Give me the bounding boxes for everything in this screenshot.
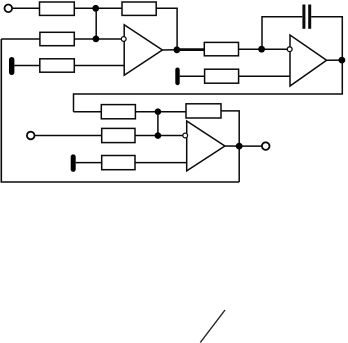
wire: [239, 48, 288, 50]
node J7: [236, 143, 243, 150]
inverting bubble U1: [121, 37, 126, 42]
wire: [239, 145, 262, 147]
wire (bottom feedback rail): [1, 39, 239, 182]
wire: [135, 111, 186, 113]
wire: [180, 75, 205, 77]
op-amp U2: [290, 35, 327, 86]
wire: [239, 75, 290, 77]
resistor R8: [186, 104, 221, 118]
wire: [327, 59, 343, 61]
inverting bubble U3: [183, 133, 188, 138]
wire: [135, 162, 187, 164]
op-amp U1: [124, 25, 162, 75]
wire: [156, 8, 177, 49]
wire: [35, 135, 102, 137]
resistor R4: [40, 59, 75, 72]
resistor R9: [102, 128, 135, 142]
source bar S3: [71, 154, 76, 172]
resistor R2: [122, 2, 156, 15]
source bar S1: [9, 57, 14, 75]
wire: [14, 65, 39, 67]
wire: [74, 65, 124, 67]
node J3: [174, 46, 181, 53]
op-amp U3: [187, 121, 225, 171]
resistor R7: [101, 105, 135, 119]
resistor R6: [205, 69, 239, 83]
capacitor C1 plate right: [308, 5, 311, 29]
wire (thick): [177, 48, 204, 51]
node J4: [258, 46, 265, 53]
wire (feedback bus to stage 2): [74, 60, 343, 112]
wire: [135, 135, 183, 137]
wire: [74, 7, 122, 9]
wire: [262, 17, 302, 49]
wire: [162, 49, 177, 51]
node J8: [155, 132, 162, 139]
node J6: [155, 108, 162, 115]
wire: [225, 145, 239, 147]
inverting bubble U2: [287, 47, 292, 52]
resistor R5: [204, 42, 238, 55]
node J1: [92, 5, 99, 12]
resistor R1: [40, 2, 75, 15]
resistor R10: [102, 156, 135, 170]
wire: [12, 7, 39, 9]
node J2: [93, 36, 100, 43]
resistor R3: [40, 32, 74, 45]
annotation stroke (bottom): [200, 310, 225, 343]
wire: [95, 8, 97, 39]
wire: [74, 111, 102, 113]
input terminal (top-left): [5, 5, 13, 13]
wire: [74, 38, 121, 40]
output terminal: [262, 142, 270, 150]
node J5: [339, 57, 346, 64]
wire: [221, 111, 239, 182]
wire: [76, 162, 102, 164]
capacitor C1 plate left: [302, 5, 305, 29]
wire: [1, 38, 40, 40]
source bar S2: [175, 68, 179, 86]
input terminal (stage 2): [27, 132, 35, 140]
wire: [157, 112, 159, 136]
wire: [311, 17, 342, 60]
